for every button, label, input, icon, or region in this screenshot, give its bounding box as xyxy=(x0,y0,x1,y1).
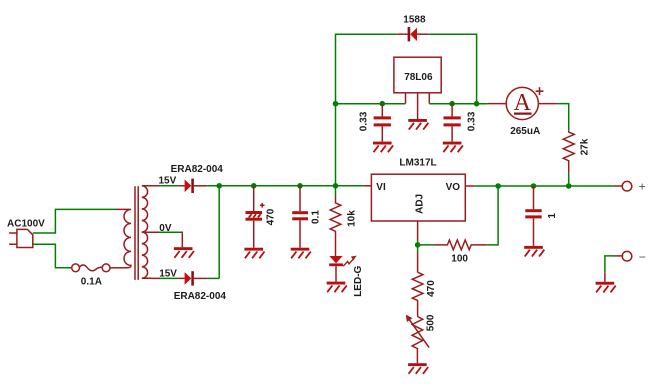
wire riser from rail up to top loop (through bus) xyxy=(336,34,398,186)
svg-text:ADJ: ADJ xyxy=(415,194,426,214)
wire VO to + terminal xyxy=(465,185,623,187)
capacitor C4 0.33 (right) xyxy=(444,104,461,142)
ammeter M1 xyxy=(487,87,557,119)
wire diode top to rail / main rail to LM317 VI xyxy=(207,185,371,187)
svg-text:100: 100 xyxy=(451,254,468,265)
resistor R3 470 xyxy=(412,272,423,316)
wire plug lower to fuse xyxy=(33,244,72,267)
wire - terminal to ground xyxy=(605,256,623,282)
capacitor C3 0.33 (left) xyxy=(374,104,391,142)
transformer T1 core xyxy=(135,186,138,280)
svg-text:1: 1 xyxy=(547,213,558,219)
transformer T1 primary winding xyxy=(116,209,131,267)
ground C5 xyxy=(524,246,544,257)
wire ADJ to R 100 xyxy=(418,244,434,246)
wire fuse to primary xyxy=(110,267,125,269)
ground C1 xyxy=(244,248,264,259)
ground LED xyxy=(327,282,347,293)
svg-text:0.33: 0.33 xyxy=(467,111,478,131)
terminal - output xyxy=(622,251,632,261)
junction bus at left riser xyxy=(333,101,339,107)
wire ADJ down to R 470 xyxy=(417,245,419,272)
ground C4 xyxy=(443,142,463,153)
polarity + of C1 xyxy=(260,203,265,208)
svg-text:LM317L: LM317L xyxy=(399,158,436,169)
wire 1588 to right corner, down to bus xyxy=(428,34,476,104)
svg-text:−: − xyxy=(639,250,646,264)
junction output line at C 1 xyxy=(531,183,537,189)
plug AC100V xyxy=(9,229,33,247)
ground potentiometer xyxy=(408,363,428,374)
svg-text:VO: VO xyxy=(446,182,461,193)
svg-text:0.33: 0.33 xyxy=(359,111,370,131)
diode D3 1588 xyxy=(397,27,428,41)
junction rail at C 470 xyxy=(251,183,257,189)
wire bottom diode to riser xyxy=(207,277,219,279)
junction bus at C 0.33 left xyxy=(380,101,386,107)
diode D1 ERA82-004 (top) xyxy=(185,179,208,193)
potentiometer VR1 500 xyxy=(406,315,429,364)
capacitor C2 0.1 xyxy=(292,186,308,248)
ground C2 xyxy=(291,248,311,259)
pin 1 78L06 xyxy=(405,93,407,104)
ground 78L06 xyxy=(408,119,428,130)
pin 2 78L06 (gnd) xyxy=(417,93,419,119)
svg-text:78L06: 78L06 xyxy=(404,72,433,83)
resistor R1 27k xyxy=(563,131,574,173)
svg-text:ERA82-004: ERA82-004 xyxy=(171,164,224,175)
junction rail at riser xyxy=(216,183,222,189)
wire bus right segment xyxy=(429,103,487,105)
svg-text:470: 470 xyxy=(266,208,277,225)
wire secondary top to diode xyxy=(152,185,185,187)
svg-text:1588: 1588 xyxy=(403,15,426,26)
wire riser from rail down to bottom diode xyxy=(218,186,220,279)
ground - terminal xyxy=(596,282,616,293)
svg-text:0.1: 0.1 xyxy=(310,210,321,224)
svg-text:+: + xyxy=(639,179,646,193)
wire R100 to output line xyxy=(487,186,498,245)
junction output line at 27k riser xyxy=(566,183,572,189)
svg-text:0.1A: 0.1A xyxy=(81,277,102,288)
svg-text:VI: VI xyxy=(376,182,386,193)
diode D2 ERA82-004 (bottom) xyxy=(185,271,208,285)
pin 3 78L06 xyxy=(428,93,430,104)
junction rail at C 0.1 xyxy=(297,183,303,189)
capacitor C1 470 electrolytic xyxy=(246,186,263,248)
junction bus at right riser xyxy=(474,101,480,107)
svg-text:ERA82-004: ERA82-004 xyxy=(174,291,227,302)
wire plug upper to transformer primary top xyxy=(33,209,116,233)
ground 0V xyxy=(174,247,194,258)
ground C3 xyxy=(373,142,393,153)
svg-text:A: A xyxy=(514,90,532,116)
wire ammeter to 27k xyxy=(557,104,569,131)
junction ADJ node xyxy=(415,242,421,248)
junction bus at C 0.33 right xyxy=(449,101,455,107)
junction rail at riser to top loop and R 10k xyxy=(333,183,339,189)
resistor R4 10k xyxy=(330,186,341,256)
regulator U2 78L06 xyxy=(394,57,441,93)
svg-text:265uA: 265uA xyxy=(510,126,540,137)
wire 0V tap xyxy=(142,232,183,248)
capacitor C5 1 xyxy=(525,186,541,246)
svg-text:AC100V: AC100V xyxy=(7,218,45,229)
terminal + output xyxy=(622,181,632,191)
svg-text:470: 470 xyxy=(426,280,437,297)
LED D4 LED-G xyxy=(329,256,356,282)
resistor R2 100 xyxy=(434,240,487,250)
transformer T1 secondary winding xyxy=(142,186,152,278)
junction output line at R100 riser xyxy=(495,183,501,189)
svg-text:15V: 15V xyxy=(159,175,177,186)
fuse F 0.1A xyxy=(72,264,110,272)
regulator U1 LM317L xyxy=(371,174,465,221)
wire 27k to output line xyxy=(568,173,570,186)
wire bus left segment xyxy=(336,103,406,105)
pin ADJ wire xyxy=(417,221,419,245)
wire secondary bottom to diode xyxy=(152,277,185,279)
svg-text:27k: 27k xyxy=(580,138,591,155)
svg-text:LED-G: LED-G xyxy=(353,265,364,296)
svg-text:10k: 10k xyxy=(347,210,358,227)
svg-text:500: 500 xyxy=(425,314,436,331)
